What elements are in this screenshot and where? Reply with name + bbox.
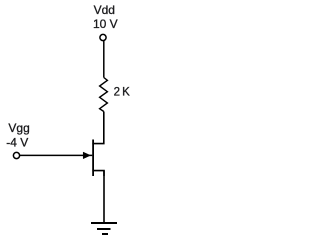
wire resistor to drain stub <box>92 112 103 144</box>
wire source to ground <box>103 171 105 223</box>
terminal Vdd <box>100 34 106 40</box>
ground bar 3 <box>102 233 108 235</box>
wire gate <box>20 154 93 156</box>
terminal Vgg <box>13 152 19 158</box>
svg-text:Vgg: Vgg <box>8 121 29 135</box>
resistor R1 2 K <box>100 78 108 112</box>
svg-text:10 V: 10 V <box>93 17 118 31</box>
transistor Q1 channel bar <box>92 140 94 177</box>
svg-text:Vdd: Vdd <box>94 3 115 17</box>
transistor Q1 source stub <box>92 171 104 176</box>
ground bar 1 <box>91 222 117 224</box>
ground bar 2 <box>97 228 111 230</box>
wire Vdd terminal to resistor <box>103 41 105 78</box>
svg-text:-4 V: -4 V <box>6 135 28 149</box>
transistor Q1 gate arrow <box>83 152 90 159</box>
svg-text:2 K: 2 K <box>114 87 131 99</box>
